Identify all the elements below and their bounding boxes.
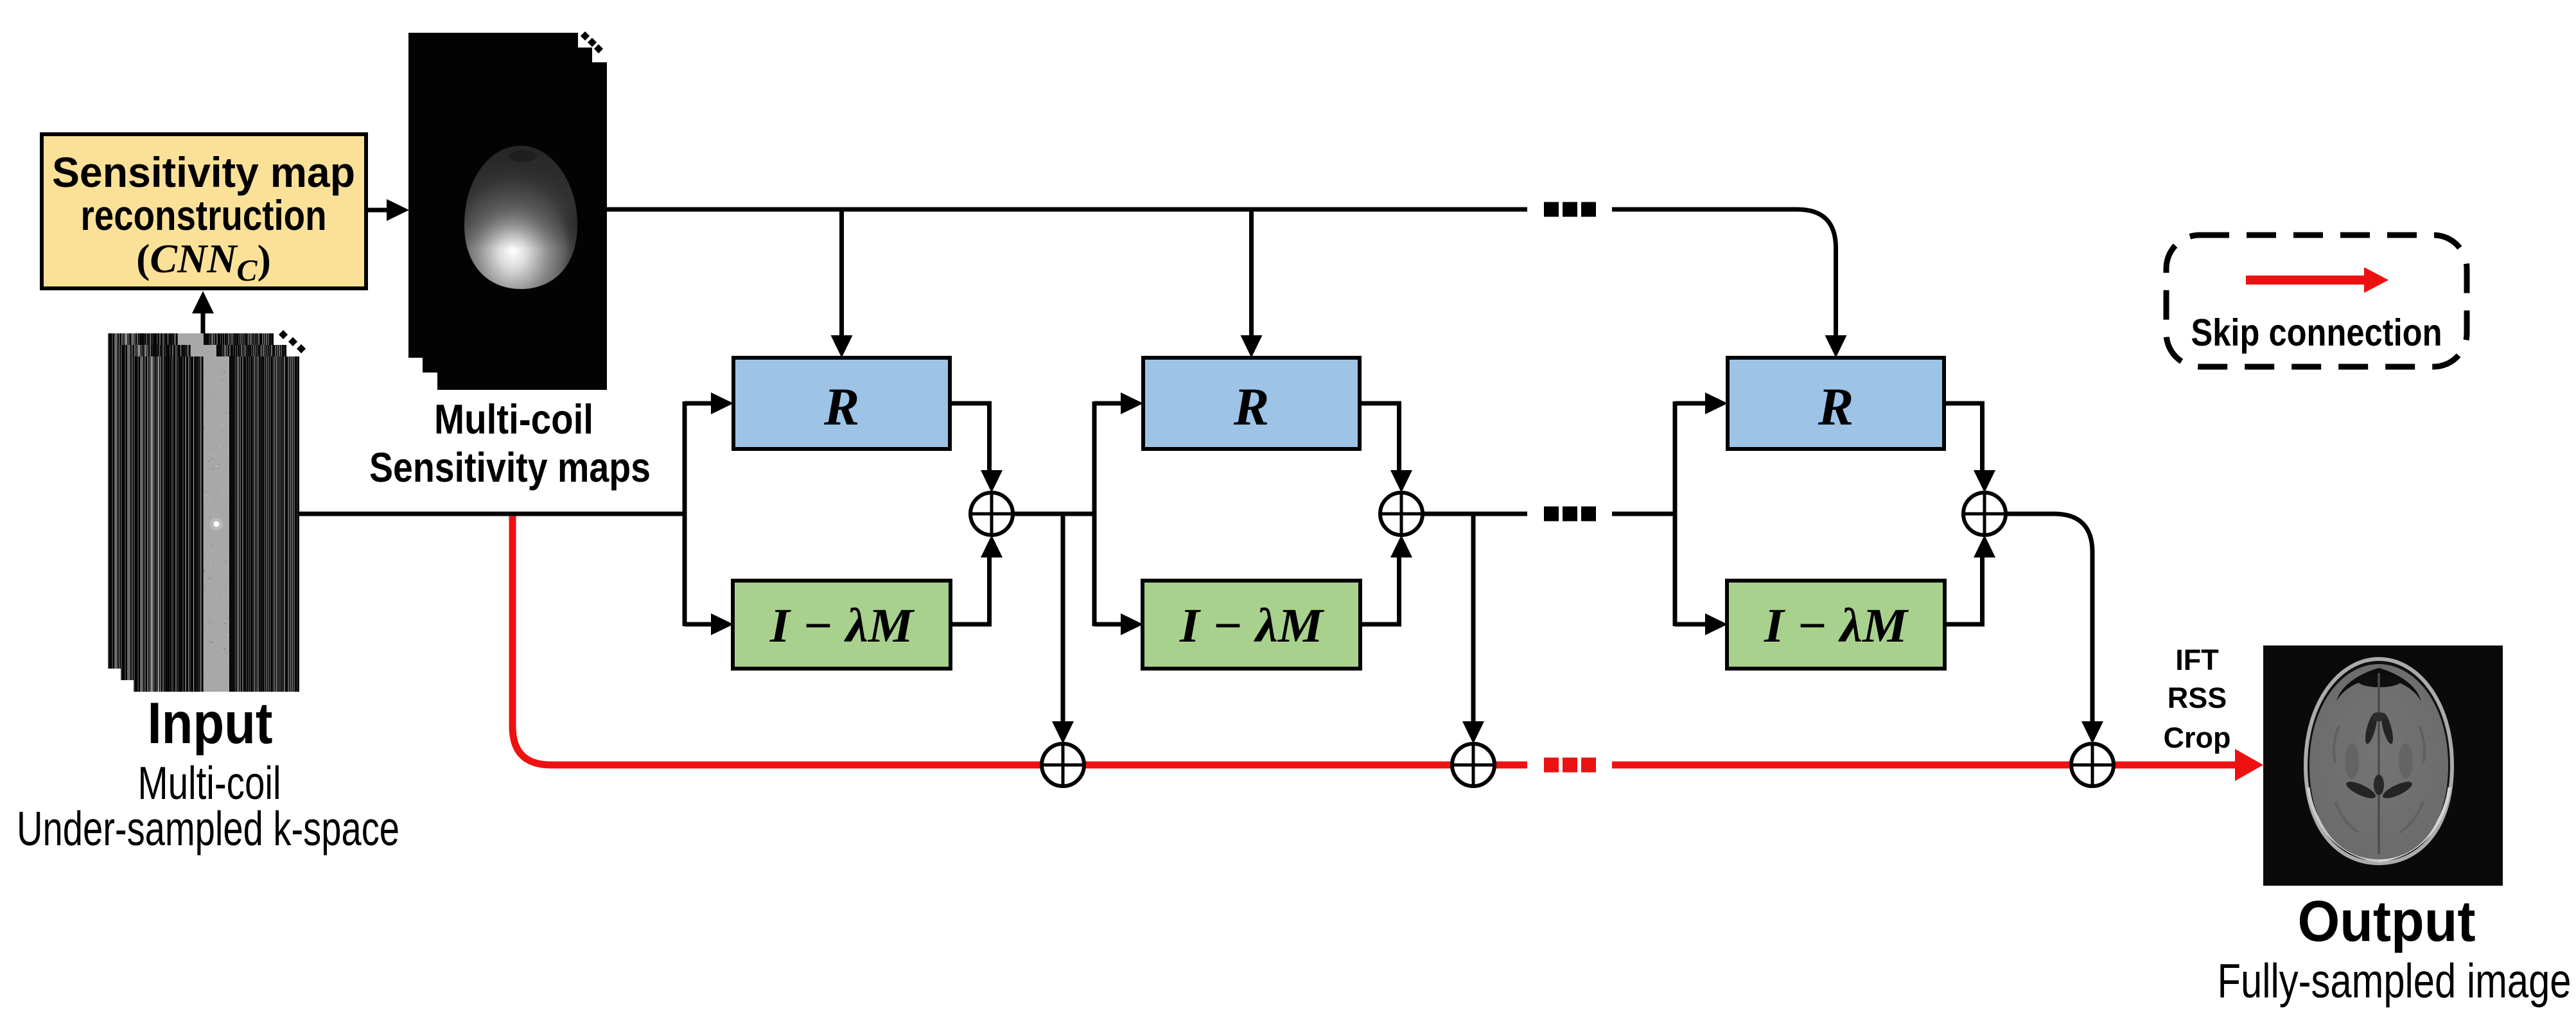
svg-text:R: R [1818,377,1853,436]
svg-text:Under-sampled k-space: Under-sampled k-space [17,802,399,856]
svg-text:Fully-sampled image: Fully-sampled image [2218,954,2572,1008]
svg-text:Output: Output [2298,890,2476,954]
svg-text:Sensitivity map: Sensitivity map [52,148,355,196]
svg-text:I − λM: I − λM [769,599,915,653]
svg-text:R: R [1233,377,1269,436]
svg-text:Sensitivity maps: Sensitivity maps [369,444,651,491]
svg-text:IFT: IFT [2175,644,2218,676]
svg-text:I − λM: I − λM [1179,599,1324,653]
svg-text:reconstruction: reconstruction [81,191,327,239]
svg-text:Multi-coil: Multi-coil [434,396,593,443]
svg-text:Input: Input [148,691,273,756]
svg-text:Crop: Crop [2164,721,2231,754]
svg-text:R: R [823,377,859,436]
svg-text:I − λM: I − λM [1764,599,1909,653]
svg-text:Skip connection: Skip connection [2191,312,2442,354]
svg-text:RSS: RSS [2168,681,2227,714]
